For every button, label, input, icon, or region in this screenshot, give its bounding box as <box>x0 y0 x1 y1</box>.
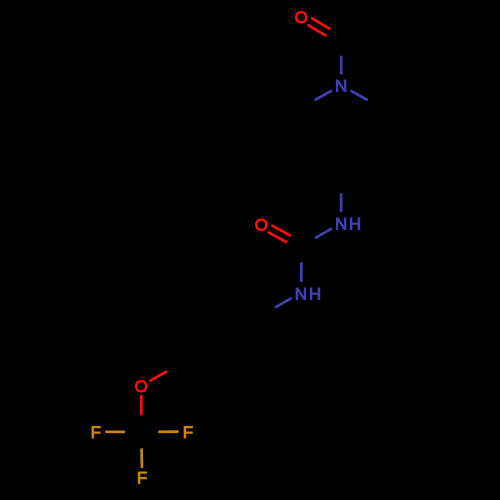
svg-text:O: O <box>255 216 268 235</box>
svg-text:H: H <box>349 214 361 233</box>
svg-text:N: N <box>335 77 347 96</box>
svg-text:F: F <box>91 423 101 442</box>
svg-text:H: H <box>309 284 321 303</box>
svg-text:F: F <box>183 423 193 442</box>
svg-text:O: O <box>135 377 148 396</box>
svg-text:N: N <box>335 214 347 233</box>
svg-text:F: F <box>137 469 147 488</box>
svg-text:O: O <box>295 8 308 27</box>
svg-text:N: N <box>295 284 307 303</box>
